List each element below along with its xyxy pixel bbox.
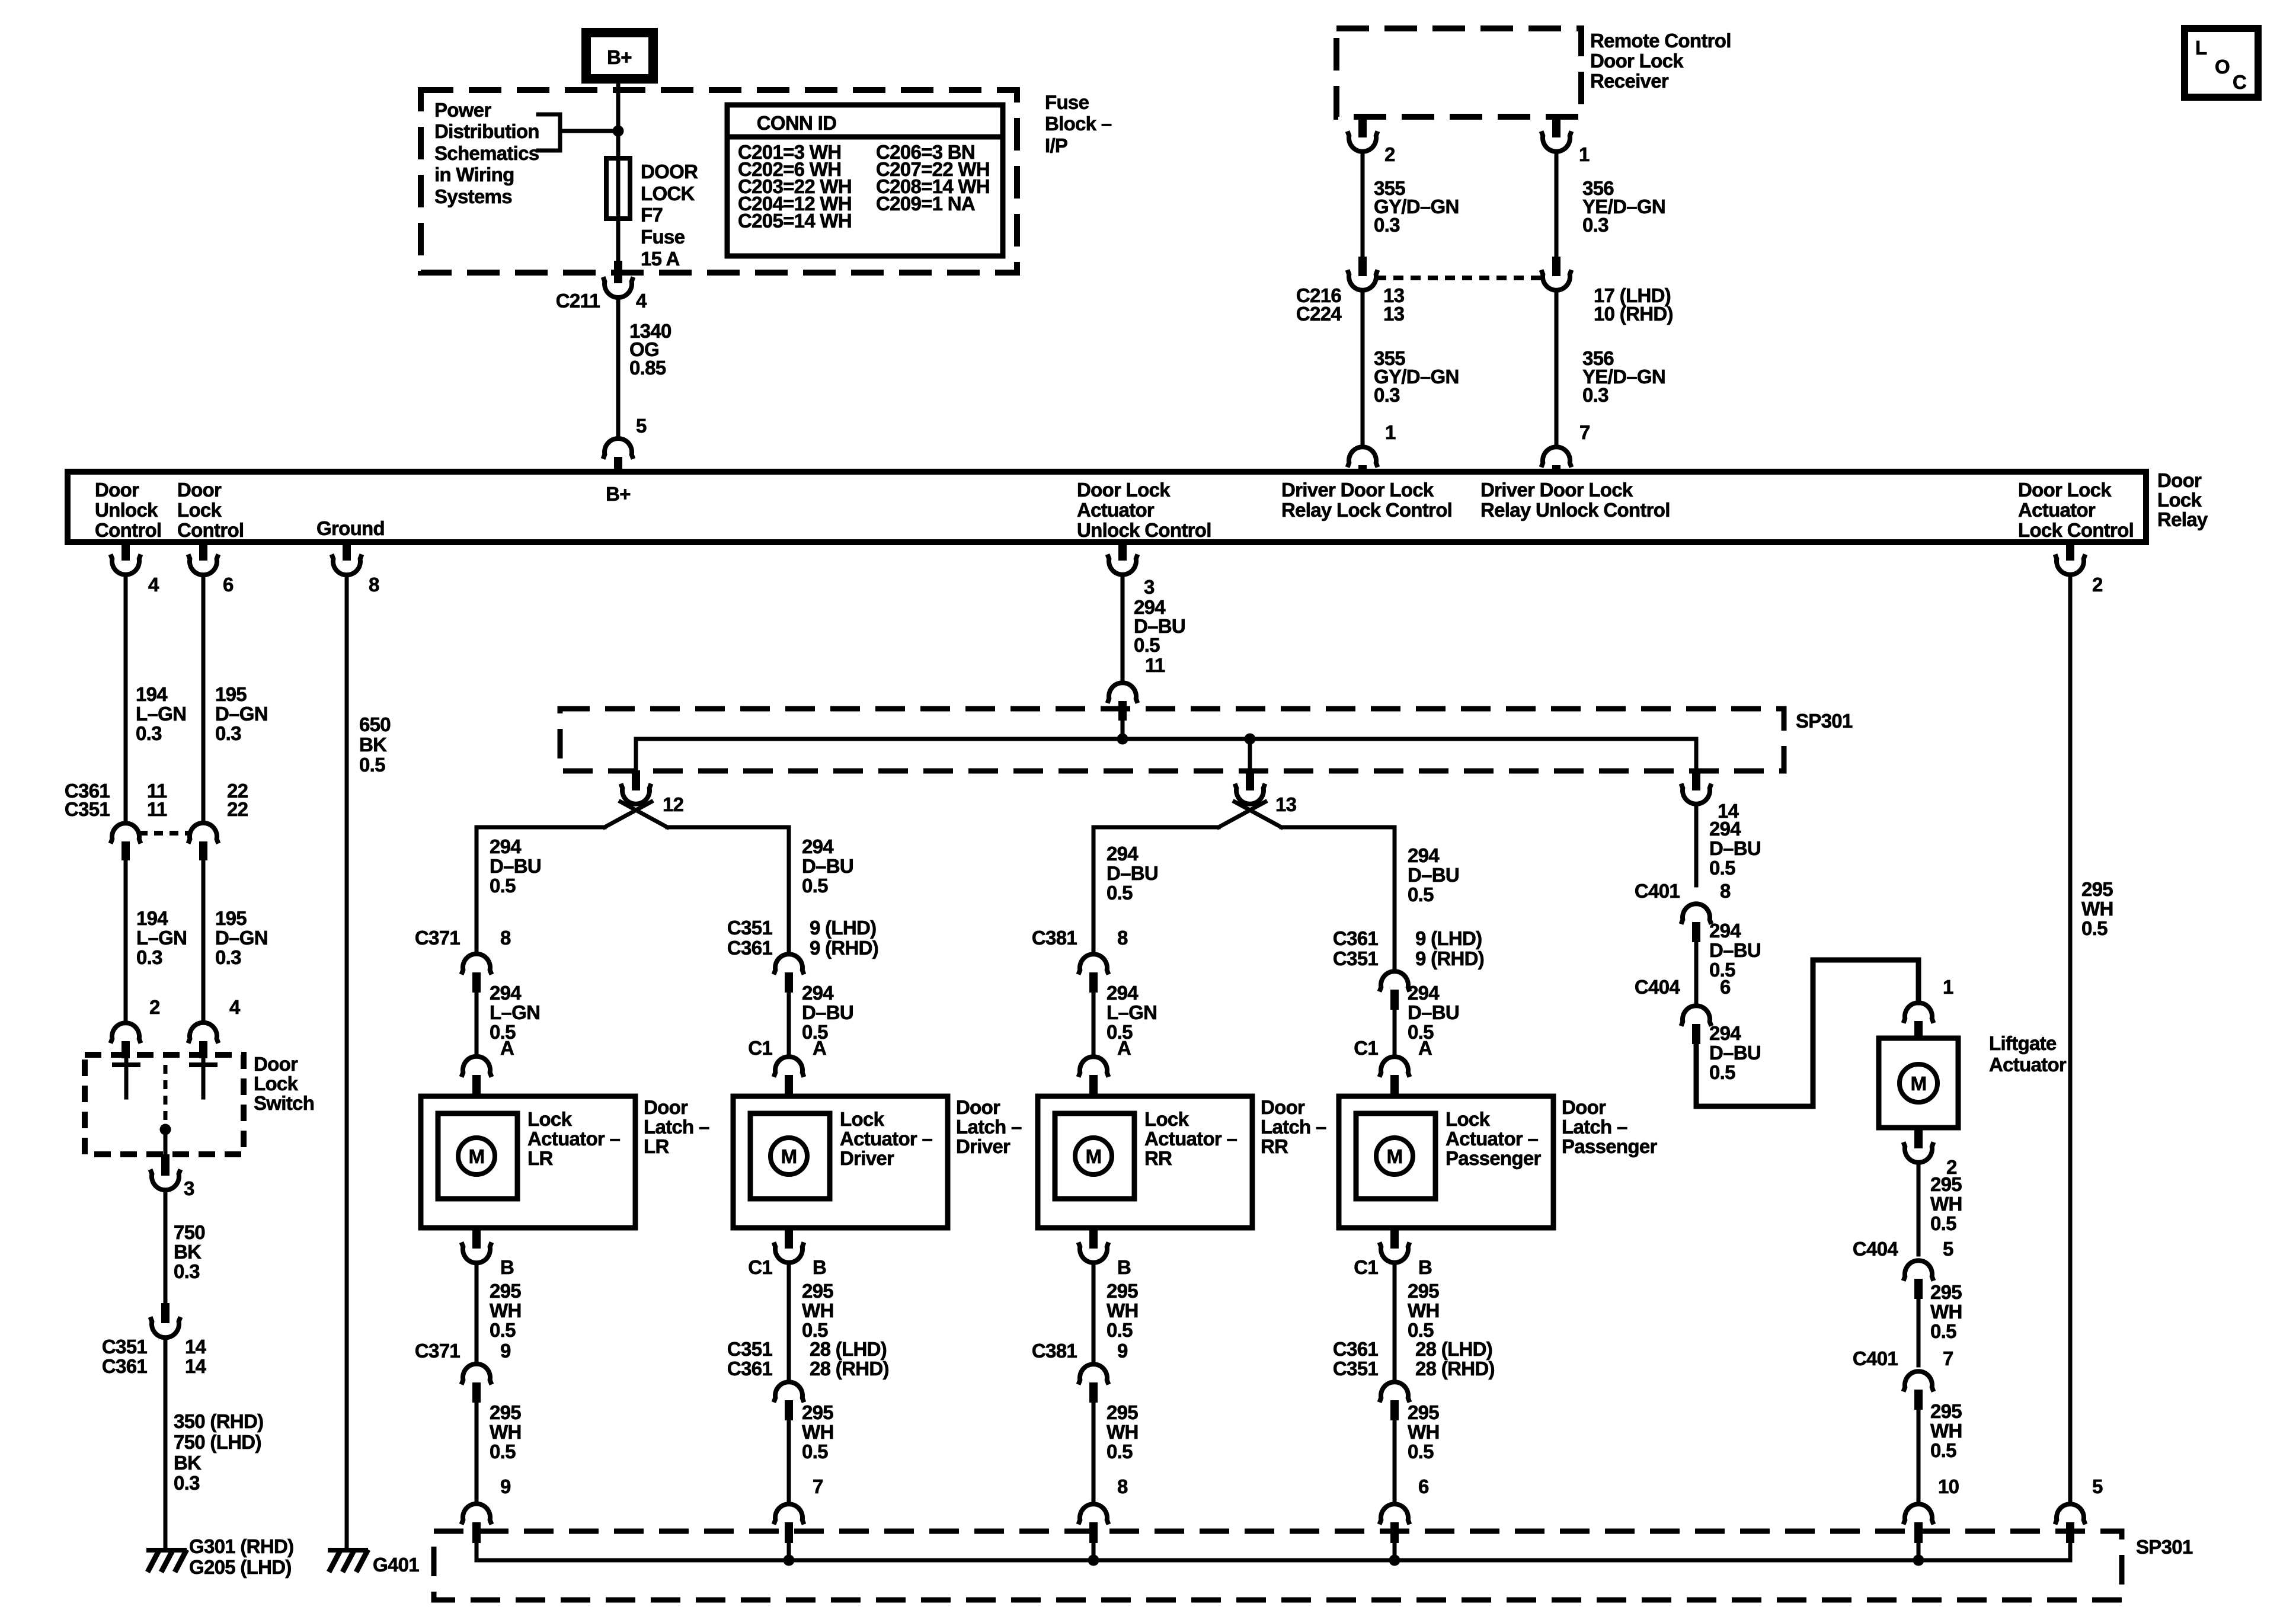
wire 295 WH 0.5 from latch B RR <box>1093 1263 1139 1364</box>
svg-text:C351: C351 <box>65 798 110 820</box>
svg-text:Door: Door <box>254 1053 298 1075</box>
svg-text:294: 294 <box>802 982 834 1004</box>
svg-text:0.5: 0.5 <box>1107 1441 1133 1462</box>
wire 294 D-BU 0.5 C401 to C404 <box>1696 920 1761 1006</box>
wire 294 D-BU 0.5 pin14 <box>1696 804 1761 885</box>
wire 295 WH 0.5 liftgate lower <box>1918 1400 1962 1504</box>
connector C381 pin 8 <box>1032 927 1128 993</box>
svg-text:D–GN: D–GN <box>215 703 268 725</box>
svg-text:9: 9 <box>500 1340 511 1362</box>
svg-text:SP301: SP301 <box>2136 1536 2193 1558</box>
svg-text:295: 295 <box>1930 1281 1962 1303</box>
svg-text:Driver Door Lock: Driver Door Lock <box>1281 479 1434 501</box>
svg-text:650: 650 <box>359 713 391 735</box>
svg-text:C381: C381 <box>1032 1340 1077 1362</box>
splice SP301 exit pin 12 <box>621 739 684 815</box>
svg-text:Distribution: Distribution <box>434 120 539 142</box>
door latch LR box <box>421 1096 709 1228</box>
svg-text:0.3: 0.3 <box>136 946 162 968</box>
svg-text:C404: C404 <box>1853 1238 1898 1260</box>
relay pin 2 <box>2055 541 2103 596</box>
svg-text:D–BU: D–BU <box>1408 1001 1459 1023</box>
svg-text:Lock: Lock <box>527 1108 573 1130</box>
svg-text:LOCK: LOCK <box>641 183 695 204</box>
svg-text:14: 14 <box>185 1355 207 1377</box>
svg-text:Driver Door Lock: Driver Door Lock <box>1480 479 1633 501</box>
svg-text:Door: Door <box>95 479 139 501</box>
svg-text:WH: WH <box>1408 1299 1440 1321</box>
svg-text:Block –: Block – <box>1045 113 1112 135</box>
svg-text:Relay: Relay <box>2157 508 2208 530</box>
connector pin 7 into relay <box>1542 421 1590 473</box>
svg-text:Unlock: Unlock <box>95 499 158 521</box>
svg-text:0.5: 0.5 <box>1709 857 1735 879</box>
door latch Driver box <box>733 1096 1022 1228</box>
svg-text:L–GN: L–GN <box>490 1001 540 1023</box>
wire 294 D-BU 0.5 to latch A <box>789 982 853 1057</box>
note Power Distribution Schematics in Wiring Systems <box>434 99 560 207</box>
svg-text:9 (LHD): 9 (LHD) <box>1415 927 1482 949</box>
wire 294 L-GN 0.5 to latch A <box>477 982 540 1057</box>
relay pin 3 <box>1108 541 1155 598</box>
svg-text:D–BU: D–BU <box>1408 864 1459 886</box>
svg-text:RR: RR <box>1261 1135 1288 1157</box>
svg-text:3: 3 <box>1144 576 1155 598</box>
wire 355 GY/D-GN 0.3 upper <box>1363 152 1459 261</box>
svg-text:0.5: 0.5 <box>802 875 828 897</box>
svg-text:0.5: 0.5 <box>1408 884 1434 905</box>
svg-text:Relay Lock Control: Relay Lock Control <box>1281 499 1452 521</box>
svg-text:Passenger: Passenger <box>1562 1135 1657 1157</box>
svg-text:Door: Door <box>644 1096 688 1118</box>
svg-text:DOOR: DOOR <box>641 161 698 183</box>
svg-text:C351: C351 <box>102 1336 147 1358</box>
svg-text:C1: C1 <box>748 1256 772 1278</box>
connector C351 C361 pin 9 <box>727 917 878 993</box>
wire SP301 internal bus <box>636 737 1696 741</box>
svg-text:2: 2 <box>1384 143 1395 165</box>
connector C361 C351 left half pin 11 <box>65 780 167 860</box>
svg-text:0.3: 0.3 <box>174 1472 200 1494</box>
svg-text:8: 8 <box>1117 927 1128 949</box>
svg-text:750: 750 <box>174 1221 205 1243</box>
splice SP301 entry pin 11 <box>1108 654 1165 739</box>
svg-text:Lock Control: Lock Control <box>2018 519 2134 541</box>
svg-text:295: 295 <box>1408 1401 1439 1423</box>
svg-text:0.3: 0.3 <box>1582 384 1609 406</box>
svg-text:WH: WH <box>1107 1299 1139 1321</box>
svg-text:Driver: Driver <box>956 1135 1011 1157</box>
connector C216 C224 right half pin 17/10 <box>1542 257 1673 325</box>
wire branch pin12 to LR door <box>477 827 605 954</box>
svg-text:Door: Door <box>177 479 222 501</box>
fuse block dashed box Fuse Block - I/P <box>421 90 1112 273</box>
svg-text:Door Lock: Door Lock <box>2018 479 2112 501</box>
wire 295 WH 0.5 from latch B Passenger <box>1395 1263 1440 1382</box>
fuse F7 DOOR LOCK 15 A <box>606 158 698 270</box>
svg-text:D–BU: D–BU <box>1709 1042 1761 1064</box>
svg-text:194: 194 <box>136 683 168 705</box>
svg-text:C381: C381 <box>1032 927 1077 949</box>
svg-text:C351: C351 <box>1333 948 1378 969</box>
svg-text:C371: C371 <box>415 1340 460 1362</box>
svg-text:Latch –: Latch – <box>644 1116 709 1138</box>
svg-text:B: B <box>813 1256 826 1278</box>
wire 294 D-BU 0.5 to Passenger latch <box>1408 844 1459 905</box>
door latch Passenger box <box>1339 1096 1657 1228</box>
splice SP301 entry pin 7 <box>774 1475 823 1560</box>
svg-text:Power: Power <box>434 99 491 121</box>
connector pin 5 into relay <box>603 415 647 473</box>
svg-text:295: 295 <box>1930 1173 1962 1195</box>
svg-text:WH: WH <box>1930 1301 1962 1323</box>
svg-text:195: 195 <box>215 907 247 929</box>
splice SP301 exit pin 14 <box>1681 739 1739 822</box>
svg-text:C209=1 NA: C209=1 NA <box>876 193 975 215</box>
connector C211 pin 4 <box>556 261 647 312</box>
svg-text:Actuator: Actuator <box>1077 499 1155 521</box>
svg-text:BK: BK <box>174 1452 202 1474</box>
svg-text:WH: WH <box>1107 1421 1139 1443</box>
svg-text:14: 14 <box>185 1336 207 1358</box>
svg-text:C371: C371 <box>415 927 460 949</box>
relay pin 6 <box>188 541 234 596</box>
svg-text:3: 3 <box>184 1177 194 1199</box>
svg-text:0.3: 0.3 <box>136 722 162 744</box>
ground G301 RHD G205 LHD <box>146 1535 293 1578</box>
node bus junction RR <box>1088 1555 1099 1566</box>
svg-text:B+: B+ <box>606 483 631 505</box>
svg-text:12: 12 <box>663 793 684 815</box>
svg-text:Door: Door <box>956 1096 1000 1118</box>
svg-text:L–GN: L–GN <box>136 703 186 725</box>
svg-text:10: 10 <box>1938 1475 1959 1497</box>
svg-text:C361: C361 <box>727 1358 772 1379</box>
svg-text:A: A <box>1117 1037 1131 1059</box>
door lock switch S1 <box>85 1053 314 1154</box>
svg-text:295: 295 <box>1107 1280 1138 1302</box>
svg-text:I/P: I/P <box>1045 135 1067 156</box>
svg-text:LR: LR <box>527 1147 553 1169</box>
connector C381 pin 9 lower <box>1032 1340 1128 1504</box>
svg-text:295: 295 <box>1107 1401 1138 1423</box>
node bus junction liftgate <box>1913 1555 1924 1566</box>
svg-text:195: 195 <box>215 683 247 705</box>
svg-text:5: 5 <box>636 415 647 437</box>
connector pin 1 into relay <box>1348 421 1396 473</box>
latch pin B Passenger <box>1354 1227 1432 1278</box>
svg-text:10 (RHD): 10 (RHD) <box>1594 303 1673 325</box>
latch pin A RR <box>1079 1037 1131 1097</box>
wire 194 L-GN 0.3 lower <box>126 860 187 1023</box>
lock actuator motor RR <box>1055 1113 1134 1199</box>
svg-text:11: 11 <box>1145 654 1165 676</box>
svg-text:C401: C401 <box>1635 880 1680 902</box>
svg-text:294: 294 <box>1709 1022 1741 1044</box>
svg-text:0.5: 0.5 <box>1107 882 1133 904</box>
switch pin 4 <box>188 996 241 1058</box>
svg-text:5: 5 <box>1943 1238 1953 1260</box>
svg-text:C: C <box>2233 71 2246 93</box>
svg-text:M: M <box>1911 1073 1927 1094</box>
svg-text:M: M <box>469 1145 485 1167</box>
node bus junction passenger <box>1389 1555 1400 1566</box>
svg-text:Actuator –: Actuator – <box>840 1128 933 1150</box>
svg-text:8: 8 <box>1720 880 1731 902</box>
wire 194 L-GN 0.3 upper <box>126 575 186 823</box>
svg-text:Driver: Driver <box>840 1147 894 1169</box>
svg-text:L–GN: L–GN <box>136 927 187 949</box>
wire 295 WH 0.5 from latch B Driver <box>789 1263 834 1382</box>
svg-text:7: 7 <box>813 1475 823 1497</box>
wire 356 YE/D-GN 0.3 lower <box>1556 290 1665 447</box>
svg-text:295: 295 <box>1408 1280 1439 1302</box>
lock actuator motor Driver <box>750 1113 830 1199</box>
connector C404 pin 6 <box>1635 976 1731 1044</box>
wire 294 D-BU 0.5 to RR latch <box>1107 843 1158 904</box>
latch pin A LR <box>462 1037 514 1097</box>
svg-text:C205=14 WH: C205=14 WH <box>738 210 852 232</box>
svg-text:0.5: 0.5 <box>2081 917 2108 939</box>
svg-text:Actuator: Actuator <box>1989 1054 2067 1076</box>
connector C404 pin 5 <box>1853 1238 1953 1299</box>
svg-text:7: 7 <box>1943 1347 1953 1369</box>
connector C216 C224 left half pin 13 <box>1296 257 1405 325</box>
svg-text:7: 7 <box>1579 421 1590 443</box>
svg-text:C404: C404 <box>1635 976 1680 998</box>
svg-text:C361: C361 <box>1333 927 1378 949</box>
svg-text:M: M <box>1387 1145 1403 1167</box>
node splice junction pin11 <box>1117 734 1128 745</box>
svg-text:G205 (LHD): G205 (LHD) <box>189 1556 292 1578</box>
svg-text:Lock: Lock <box>177 499 222 521</box>
svg-text:Liftgate: Liftgate <box>1989 1032 2057 1054</box>
svg-text:1: 1 <box>1579 143 1590 165</box>
svg-text:0.5: 0.5 <box>1709 1061 1735 1083</box>
svg-text:8: 8 <box>500 927 511 949</box>
svg-text:C1: C1 <box>1354 1037 1378 1059</box>
svg-text:22: 22 <box>227 798 248 820</box>
svg-text:0.5: 0.5 <box>1930 1439 1956 1461</box>
svg-text:C361: C361 <box>1333 1338 1378 1360</box>
wire 1340 OG 0.85 <box>618 297 671 438</box>
svg-text:13: 13 <box>1383 303 1405 325</box>
svg-text:0.5: 0.5 <box>490 1441 516 1462</box>
svg-text:294: 294 <box>490 836 522 857</box>
svg-text:0.3: 0.3 <box>174 1260 200 1282</box>
relay pin 8 ground <box>332 541 380 596</box>
svg-text:295: 295 <box>490 1280 521 1302</box>
lock actuator motor Passenger <box>1356 1113 1435 1199</box>
svg-text:A: A <box>500 1037 514 1059</box>
svg-text:8: 8 <box>1117 1475 1128 1497</box>
svg-text:C361: C361 <box>102 1355 147 1377</box>
svg-text:M: M <box>1086 1145 1102 1167</box>
svg-text:C401: C401 <box>1853 1347 1898 1369</box>
liftgate actuator pin 1 <box>1904 976 1954 1041</box>
wire dashed connector link C216 C224 <box>1376 276 1543 280</box>
wire 295 WH 0.5 from relay pin 2 <box>2070 575 2113 1504</box>
svg-text:Actuator –: Actuator – <box>1446 1128 1539 1150</box>
svg-text:RR: RR <box>1144 1147 1172 1169</box>
connector C351 C361 pin 14 <box>102 1303 207 1377</box>
switch common node <box>160 1124 171 1156</box>
wire branch pin13 to RR door <box>1093 827 1219 954</box>
svg-text:9: 9 <box>500 1475 511 1497</box>
splice SP301 exit pin 13 <box>1235 739 1297 815</box>
wire crossover X at pin 12 <box>605 802 667 827</box>
splice SP301 entry pin 5 <box>2055 1475 2103 1560</box>
svg-text:Schematics: Schematics <box>434 142 539 164</box>
svg-text:294: 294 <box>1107 982 1139 1004</box>
svg-text:2: 2 <box>2092 574 2103 596</box>
wire 294 D-BU 0.5 to liftgate <box>1696 960 1918 1106</box>
svg-text:L: L <box>2195 37 2207 59</box>
latch pin A Driver <box>748 1037 826 1097</box>
svg-text:Passenger: Passenger <box>1446 1147 1541 1169</box>
wire 294 L-GN 0.5 to latch A <box>1093 982 1157 1057</box>
svg-text:Lock: Lock <box>840 1108 885 1130</box>
svg-text:295: 295 <box>802 1280 833 1302</box>
wire 750 BK 0.3 <box>165 1190 205 1303</box>
svg-text:SP301: SP301 <box>1796 710 1853 732</box>
wire branch pin13 to passenger door <box>1281 827 1395 971</box>
svg-text:Door: Door <box>1261 1096 1305 1118</box>
svg-text:Door Lock: Door Lock <box>1590 50 1684 72</box>
svg-text:C1: C1 <box>748 1037 772 1059</box>
svg-text:C1: C1 <box>1354 1256 1378 1278</box>
svg-text:B: B <box>1117 1256 1131 1278</box>
wire dashed connector link C361 C351 <box>139 831 190 836</box>
wire 295 WH 0.5 to SP301 RR <box>1107 1401 1139 1462</box>
svg-text:Actuator: Actuator <box>2018 499 2096 521</box>
wire 294 D-BU 0.5 to LR latch <box>490 836 541 897</box>
svg-text:295: 295 <box>1930 1400 1962 1422</box>
svg-text:4: 4 <box>229 996 241 1018</box>
svg-text:6: 6 <box>223 574 234 596</box>
svg-text:C351: C351 <box>727 917 772 939</box>
svg-text:D–BU: D–BU <box>802 1001 853 1023</box>
svg-text:BK: BK <box>359 734 387 756</box>
svg-text:2: 2 <box>149 996 160 1018</box>
svg-text:A: A <box>813 1037 826 1059</box>
connector C351 C361 pin 28 lower <box>727 1338 889 1504</box>
wire 650 BK 0.5 ground wire <box>347 575 391 1548</box>
svg-text:Actuator –: Actuator – <box>527 1128 621 1150</box>
CONN ID table <box>727 105 1003 256</box>
svg-text:Latch –: Latch – <box>1562 1116 1627 1138</box>
svg-text:Lock: Lock <box>1144 1108 1189 1130</box>
svg-text:294: 294 <box>802 836 834 857</box>
door lock relay box U1 <box>68 469 2208 542</box>
svg-text:D–BU: D–BU <box>1107 862 1158 884</box>
svg-text:15 A: 15 A <box>641 248 680 270</box>
latch pin B Driver <box>748 1227 826 1278</box>
svg-text:0.3: 0.3 <box>215 946 241 968</box>
connector C371 pin 8 <box>415 927 511 993</box>
svg-text:D–BU: D–BU <box>802 855 853 877</box>
svg-text:B: B <box>1418 1256 1432 1278</box>
svg-text:Fuse: Fuse <box>1045 91 1089 113</box>
svg-text:L–GN: L–GN <box>1107 1001 1157 1023</box>
svg-text:0.5: 0.5 <box>1930 1320 1956 1342</box>
svg-text:WH: WH <box>490 1299 522 1321</box>
connector C361 C351 pin 9 <box>1333 927 1484 1010</box>
remote control door lock receiver box <box>1336 28 1731 117</box>
svg-text:6: 6 <box>1418 1475 1429 1497</box>
wire crossover X at pin 13 <box>1219 802 1281 827</box>
svg-text:O: O <box>2215 56 2230 78</box>
svg-text:28 (RHD): 28 (RHD) <box>1415 1358 1495 1379</box>
node bus junction driver <box>784 1555 795 1566</box>
svg-text:Receiver: Receiver <box>1590 70 1669 92</box>
relay pin 4 <box>111 541 160 596</box>
svg-text:WH: WH <box>1930 1193 1962 1215</box>
svg-text:G301 (RHD): G301 (RHD) <box>189 1535 293 1557</box>
svg-text:294: 294 <box>1408 982 1440 1004</box>
svg-text:28 (LHD): 28 (LHD) <box>810 1338 887 1360</box>
svg-text:0.3: 0.3 <box>215 722 241 744</box>
svg-text:LR: LR <box>644 1135 669 1157</box>
svg-text:6: 6 <box>1720 976 1731 998</box>
svg-text:Door Lock: Door Lock <box>1077 479 1171 501</box>
switch pin 3 <box>151 1154 195 1199</box>
lock actuator motor LR <box>438 1113 517 1199</box>
latch pin A Passenger <box>1354 1037 1432 1097</box>
svg-text:0.5: 0.5 <box>490 875 516 897</box>
svg-text:0.5: 0.5 <box>1408 1441 1434 1462</box>
svg-text:WH: WH <box>802 1299 834 1321</box>
splice SP301 entry pin 6 <box>1380 1475 1430 1560</box>
svg-text:11: 11 <box>147 798 167 820</box>
svg-text:D–GN: D–GN <box>215 927 268 949</box>
svg-text:D–BU: D–BU <box>1709 837 1761 859</box>
switch contact left <box>112 1058 140 1097</box>
svg-text:WH: WH <box>1408 1421 1440 1443</box>
receiver pin 1 <box>1542 117 1590 165</box>
svg-text:in Wiring: in Wiring <box>434 164 514 185</box>
svg-text:295: 295 <box>802 1401 833 1423</box>
svg-text:28 (RHD): 28 (RHD) <box>810 1358 889 1379</box>
svg-text:WH: WH <box>2081 898 2113 920</box>
svg-text:C224: C224 <box>1296 303 1342 325</box>
svg-text:G401: G401 <box>373 1554 419 1576</box>
svg-text:Latch –: Latch – <box>1261 1116 1326 1138</box>
svg-text:5: 5 <box>2092 1475 2103 1497</box>
svg-text:0.3: 0.3 <box>1374 384 1400 406</box>
svg-text:9 (RHD): 9 (RHD) <box>810 937 878 959</box>
svg-text:WH: WH <box>802 1421 834 1443</box>
wire 295 WH 0.5 to SP301 LR <box>490 1401 522 1462</box>
svg-text:Ground: Ground <box>316 517 385 539</box>
wire 294 D-BU 0.5 to Driver latch <box>802 836 853 897</box>
connector C401 pin 7 <box>1853 1347 1953 1410</box>
svg-text:WH: WH <box>490 1421 522 1443</box>
svg-text:D–BU: D–BU <box>1709 939 1761 961</box>
wire note bracket to B+ node <box>560 129 618 133</box>
svg-text:9 (RHD): 9 (RHD) <box>1415 948 1484 969</box>
node junction on B+ wire <box>613 126 624 137</box>
liftgate actuator box <box>1879 1032 2067 1128</box>
svg-text:295: 295 <box>490 1401 521 1423</box>
svg-text:0.5: 0.5 <box>802 1441 828 1462</box>
splice pack SP301 lower box <box>434 1531 2193 1600</box>
svg-text:C211: C211 <box>556 290 600 312</box>
wire 195 D-GN 0.3 upper <box>203 575 268 823</box>
svg-text:0.3: 0.3 <box>1374 214 1400 236</box>
svg-text:Unlock Control: Unlock Control <box>1077 519 1211 541</box>
connector C361 C351 pin 28 lower <box>1333 1338 1495 1504</box>
